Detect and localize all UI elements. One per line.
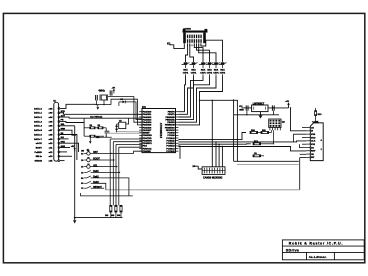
wire S6 net [93,183,106,190]
svg-text:PC0/A8: PC0/A8 [168,132,176,135]
zener diode D2 [190,63,198,65]
svg-text:C5V1: C5V1 [191,73,197,75]
svg-text:BZX: BZX [220,70,225,72]
IC1 pin left 7 [139,126,142,128]
wire bottom loop [81,193,133,196]
IC1 pin right 13 [176,142,179,144]
wire net SEL rail [60,125,75,127]
wire +5V to SD VDD [291,108,307,131]
svg-text:PB2/AIN0: PB2/AIN0 [165,116,175,119]
component Q2 socket block [269,119,281,128]
ground arrow cluster [89,136,91,139]
svg-text:CON10: CON10 [184,28,192,30]
svg-text:SELin: SELin [36,156,43,158]
capacitor C2 [109,90,111,95]
SD1 pin 9 [306,153,310,155]
wire net D12 [60,160,65,162]
wire bus MISO [178,141,306,142]
wire net D10 [60,151,67,153]
IC1 pin left 12 [139,140,142,142]
wire net D11 [60,155,72,157]
wire Q2 pins [270,130,272,132]
X1 pin 11 [58,151,60,153]
svg-text:1k0: 1k0 [111,215,114,217]
X1 pin 8 [58,138,60,140]
svg-text:PC3/A11: PC3/A11 [166,139,175,142]
svg-text:PaEND: PaEND [35,152,43,154]
wire ground rail [234,114,279,116]
IC1 pin right 3 [176,116,179,118]
IC1 pin right 11 [176,137,179,139]
wire column D [119,146,142,148]
wire cluster left vertical [83,118,85,136]
svg-text:PC6/A14: PC6/A14 [166,147,175,150]
svg-text:C5V1: C5V1 [213,73,219,75]
svg-text:PA4/AD4: PA4/AD4 [143,121,152,124]
svg-text:PD6/WR: PD6/WR [143,151,151,153]
svg-text:PA3/AD3: PA3/AD3 [143,118,152,121]
svg-text:C5V1: C5V1 [200,73,206,75]
wire net D8 [60,143,79,152]
svg-text:BZX: BZX [207,70,212,72]
wire cluster row2 [84,135,90,137]
svg-text:DATA-0: DATA-0 [34,107,42,110]
wire cluster to IC1 gray B [106,132,142,134]
wire gray return net [237,164,299,166]
wire ISP drop 2 [215,142,217,167]
SD1 pin 8 [306,150,310,152]
IC1 pin right 2 [176,113,179,115]
svg-text:PA7/AD7: PA7/AD7 [143,129,152,132]
wire column A [110,138,142,140]
wire S5 net [93,178,129,196]
connector SD1 card socket [310,123,323,161]
wire [261,155,264,157]
wire bundle to IC1 port B [178,76,185,112]
svg-text:4MHz: 4MHz [98,90,105,93]
X1 pin 3 [58,116,60,118]
svg-text:PA0/AD0: PA0/AD0 [143,111,152,114]
SD1 pin 1 [306,127,310,129]
svg-text:+5V: +5V [285,101,289,103]
SD1 pin 4 [306,136,310,138]
ground arrow crystal [97,105,99,108]
wire S4 net [93,171,120,173]
wire cluster row1 [84,127,90,129]
X1 pin 10 [58,147,60,149]
svg-text:IC1: IC1 [142,106,147,109]
IC1 pin left 2 [139,113,142,115]
capacitor C6 [245,105,247,110]
svg-text:PC1/A9: PC1/A9 [168,134,176,137]
svg-text:VDD: VDD [311,137,316,139]
ground arrow under IC3 [260,112,262,116]
svg-text:C5V1: C5V1 [183,73,189,75]
svg-text:PA6/AD6: PA6/AD6 [143,126,152,129]
IC1 pin right 12 [176,140,179,142]
wire crystal left down [95,100,97,104]
svg-text:PA2/AD2: PA2/AD2 [143,116,152,119]
resistor R13 pullup [315,111,317,116]
wire column B [113,141,142,143]
IC1 pin right 1 [176,111,179,113]
wire fan from K1 to zeners [186,43,188,62]
wire [261,143,274,145]
X1 pin 6 [58,129,60,131]
svg-text:PA1/AD1: PA1/AD1 [143,113,152,116]
IC1 pin right 8 [176,129,179,131]
svg-text:PC7/A15: PC7/A15 [166,150,175,153]
IC1 pin right 9 [176,132,179,134]
svg-text:PA5/AD5: PA5/AD5 [143,124,152,127]
svg-text:DATA-1: DATA-1 [34,112,42,115]
wire bus SS [178,147,306,151]
X1 pin 2 [58,112,60,114]
svg-text:INI: INI [61,133,64,135]
svg-text:AUT: AUT [61,114,66,117]
crystal Q1 [101,95,106,100]
IC1 pin left 5 [139,121,142,123]
svg-text:nACK: nACK [36,142,42,145]
wire S7 net [93,187,105,189]
wire to SV1 pin 1 [194,165,196,167]
title block [282,240,364,260]
wire SD staircase 2 [300,144,307,147]
X1 pin 7 [58,134,60,136]
power +5V arrow pair [113,90,115,93]
wire K2 right up [126,118,129,124]
resistor R3 [90,135,95,137]
microcontroller IC1 AT90S8515 [142,109,176,153]
svg-text:WP: WP [311,157,315,159]
IC1 pin right 6 [176,124,179,126]
wire net INIT [60,135,77,161]
IC1 pin right 5 [176,121,179,123]
zener diode D4 [206,63,214,65]
wire X1 pin1 gnd to crystal [60,104,97,108]
IC1 pin left 4 [139,119,142,121]
connector X1 DB left [54,102,59,161]
wire bus SCK [178,143,250,145]
wire S2 net [93,159,114,161]
wire bus MOSI [178,133,246,140]
resistor R5 [115,205,117,212]
svg-text:1k0: 1k0 [117,215,120,217]
svg-text:DATA-5: DATA-5 [34,129,42,132]
connector K1 (top pin header) [183,31,208,33]
wire card detect [300,157,307,159]
ground arrow bottom [74,217,76,219]
wire net D9 [60,147,70,149]
capacitor C7 [271,105,273,110]
svg-text:CD: CD [311,154,315,156]
zener diode D3 [199,63,207,65]
wire D7 left [118,102,120,106]
SD1 pin 7 [306,146,310,148]
wire gray long net [106,189,300,191]
IC1 pin left 10 [139,134,142,136]
IC1 pin left 8 [139,129,142,131]
resistor R4 [110,205,112,212]
wire crystal gnd rail [96,104,111,106]
wire net ERR [60,130,76,135]
svg-text:GND18: GND18 [35,161,43,163]
SD1 pin 2 [306,130,310,132]
wire XTAL2 [111,99,142,125]
IC1 pin left 16 [139,150,142,152]
svg-text:PC2/A10: PC2/A10 [166,137,175,140]
wire IC3 output [268,107,289,109]
resistor R6 [120,205,122,212]
svg-text:DO: DO [311,147,315,149]
X1 pin 1 [58,108,60,110]
junction dot [273,143,274,144]
wire S3 net [93,166,117,168]
wire net AUTO [60,117,69,118]
svg-text:PC5/A13: PC5/A13 [166,145,175,148]
component K2 box [119,122,126,128]
svg-text:BUSY: BUSY [36,147,43,149]
IC1 pin left 6 [139,124,142,126]
wire resistor bottom rail [75,217,123,219]
IC1 pin left 9 [139,132,142,134]
zener diode D5 [212,63,220,65]
IC1 pin left 1 [139,111,142,113]
wire XTAL1 [108,97,142,123]
svg-text:RSV: RSV [311,151,316,153]
wire net SLIN [60,138,69,140]
power +5V arrow on rail [74,149,76,152]
svg-text:4a.Ldtmar.: 4a.Ldtmar. [309,255,327,259]
capacitor C1 [95,95,97,100]
svg-text:Robik & Raster /C.P.U.: Robik & Raster /C.P.U. [289,242,344,246]
wire ISP drop 4 [221,147,223,167]
svg-text:SLI: SLI [61,137,65,139]
svg-text:CAN10 MLW10G: CAN10 MLW10G [203,176,223,179]
svg-text:BZX: BZX [214,70,219,72]
svg-text:AT90S8515: AT90S8515 [159,123,163,139]
svg-text:DATA-7: DATA-7 [34,138,42,141]
wire cluster to IC1 gray A [117,131,142,133]
svg-text:IC2 74HC14: IC2 74HC14 [90,116,103,119]
IC1 pin left 14 [139,145,142,147]
svg-text:SDrive: SDrive [286,249,299,253]
svg-text:1k0: 1k0 [105,215,108,217]
SD1 pin 10 [306,156,310,158]
X1 pin 12 [58,155,60,157]
svg-text:C5V1: C5V1 [220,73,226,75]
svg-text:C5V1: C5V1 [207,73,213,75]
svg-text:DATA-3: DATA-3 [34,120,42,123]
wire ground rail left [74,126,76,218]
wire VCC distribution [200,100,238,161]
wire IC1 pin 29 down [178,146,180,159]
X1 pin 5 [58,125,60,127]
wire long net B [69,117,142,119]
svg-text:ERR: ERR [61,128,66,130]
svg-text:VSS: VSS [311,134,316,136]
IC1 pin right 10 [176,134,179,136]
IC1 pin left 11 [139,137,142,139]
svg-text:DATA-4: DATA-4 [34,125,42,128]
wire SD stub rows [302,127,306,129]
wire [269,132,272,134]
wire ISP drop 1 [211,100,213,167]
SD1 pin 3 [306,133,310,135]
IC1 pin right 4 [176,119,179,121]
wire IC3 input [242,107,252,109]
wire net PE [60,121,84,122]
svg-text:BZX: BZX [191,70,196,72]
connector SV1 ISP header [202,167,225,175]
SD1 pin 5 [306,140,310,142]
SD1 pin 6 [306,143,310,145]
svg-text:DATA-6: DATA-6 [34,133,42,136]
zener diode D1 [182,63,190,65]
svg-text:PB4/SS: PB4/SS [167,121,175,124]
IC1 pin left 3 [139,116,142,118]
wire K2 left [117,123,119,125]
diode D8 [116,124,118,132]
svg-text:BZX: BZX [183,70,188,72]
svg-text:BZX: BZX [201,70,206,72]
svg-text:CLK: CLK [311,141,316,143]
svg-text:PC4/A12: PC4/A12 [166,142,175,145]
regulator IC3 body [252,105,268,112]
wire column C [116,143,142,145]
IC1 pin left 13 [139,142,142,144]
IC1 pin left 15 [139,148,142,150]
X1 pin 4 [58,121,60,123]
IC1 pin right 15 [176,148,179,150]
svg-text:PB3/AIN1: PB3/AIN1 [165,118,175,121]
wire SD staircase 1 [294,134,307,142]
X1 pin 13 [58,160,60,162]
X1 pin 9 [58,142,60,144]
capacitor C3 [105,130,110,132]
svg-text:DATA-2: DATA-2 [34,116,42,119]
svg-text:GND: GND [239,109,244,111]
wire ISP drop 3 [218,144,220,167]
power +5V arrow [288,104,290,108]
IC1 pin right 16 [176,150,179,152]
wire [258,132,261,134]
wire +5V box left [233,99,235,161]
wire net STB [60,113,64,115]
wire cluster bottom [95,136,111,138]
IC1 pin right 14 [176,145,179,147]
wire S1 net [93,151,142,153]
svg-text:K2: K2 [119,121,121,123]
wire long net A [64,113,143,115]
svg-text:STB: STB [61,111,66,113]
wire GND box bottom [234,160,299,162]
IC1 pin right 7 [176,126,179,128]
zener diode D6 [219,63,227,65]
svg-text:LM7805CT: LM7805CT [253,103,265,105]
